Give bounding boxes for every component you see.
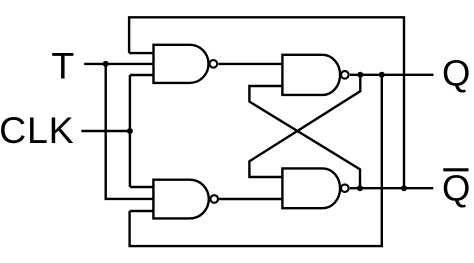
wire Q to U4 cross-coupling bbox=[249, 75, 360, 177]
node Q cross junction bbox=[357, 72, 363, 78]
wire Qbar output bbox=[350, 187, 434, 189]
svg-text:Q: Q bbox=[442, 167, 470, 208]
wire U1 input1 stub bbox=[129, 52, 153, 54]
wire Qbar to U3 cross-coupling bbox=[249, 86, 360, 188]
bubble U2 bbox=[210, 195, 218, 203]
node Q rail junction bbox=[379, 72, 385, 78]
wire U1 output to U3 bbox=[218, 63, 282, 65]
wire Qbar feedback top rail bbox=[129, 17, 404, 188]
wire CLK vertical bbox=[129, 75, 131, 187]
svg-text:T: T bbox=[51, 44, 74, 86]
bubble U4 bbox=[341, 184, 349, 192]
bubble U1 bbox=[210, 60, 218, 68]
svg-text:Q: Q bbox=[442, 52, 470, 93]
overline of Q-bar bbox=[443, 168, 468, 171]
node Qbar cross junction bbox=[357, 185, 363, 191]
wire T to lower gate bbox=[106, 64, 154, 199]
nand-gate U2 bbox=[153, 180, 208, 219]
wire Q feedback bottom rail bbox=[130, 75, 382, 246]
nand-gate U1 bbox=[154, 45, 209, 83]
node Qbar rail junction bbox=[401, 185, 407, 191]
nand-gate U3 bbox=[282, 55, 340, 95]
wire U2 output to U4 bbox=[219, 198, 282, 200]
wire U1 input3 stub bbox=[130, 74, 154, 76]
svg-text:CLK: CLK bbox=[0, 109, 74, 151]
wire U2 input1 stub bbox=[130, 186, 154, 188]
wire Q output bbox=[350, 74, 434, 76]
nand-gate U4 bbox=[282, 168, 340, 208]
node CLK junction bbox=[127, 128, 133, 134]
node T junction bbox=[103, 61, 109, 67]
wire U2 input3 stub bbox=[130, 210, 154, 212]
bubble U3 bbox=[341, 71, 349, 79]
wire T input bbox=[84, 63, 153, 65]
wire CLK input bbox=[81, 130, 129, 132]
